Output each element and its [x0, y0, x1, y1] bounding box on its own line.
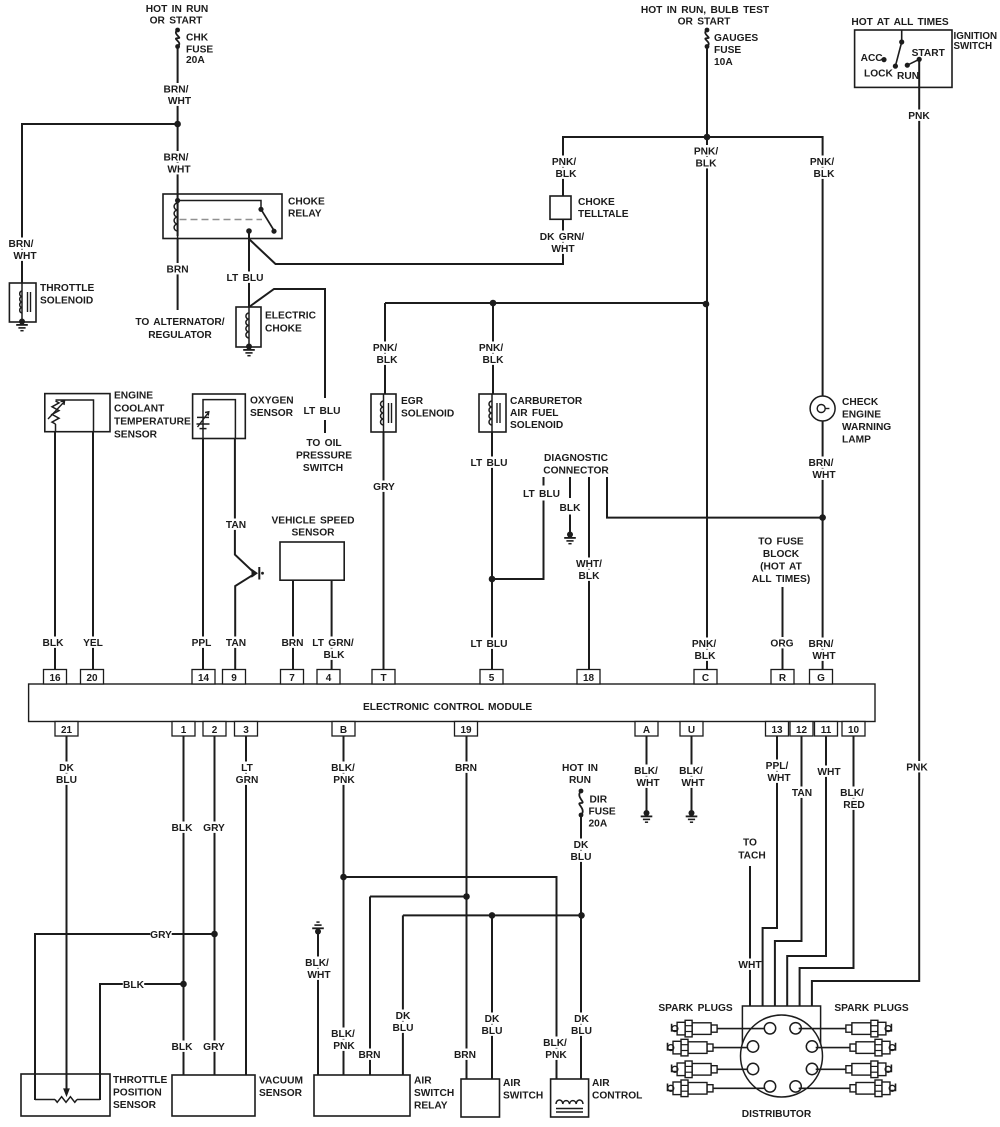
svg-text:POSITION: POSITION — [113, 1088, 162, 1099]
spark plug wire left 1 — [717, 1028, 764, 1030]
svg-text:BRN/: BRN/ — [9, 239, 34, 250]
svg-text:HOT IN RUN, BULB TEST: HOT IN RUN, BULB TEST — [641, 5, 770, 16]
svg-text:PNK: PNK — [333, 1041, 355, 1052]
svg-text:BLK: BLK — [324, 650, 346, 661]
svg-text:WHT: WHT — [168, 96, 192, 107]
ECM pin 2 — [203, 722, 226, 737]
choke telltale — [550, 196, 629, 220]
svg-text:PNK/: PNK/ — [479, 343, 504, 354]
svg-text:BLK: BLK — [483, 355, 505, 366]
svg-text:GRY: GRY — [150, 930, 172, 941]
ground at ECM pin A — [641, 810, 653, 822]
wire DK BLU dir fuse to air control valve — [570, 815, 592, 1079]
svg-text:SWITCH: SWITCH — [303, 463, 343, 474]
check engine warning lamp — [810, 396, 891, 446]
ECM pin 10 — [842, 722, 865, 737]
spark plug wire left 2 — [713, 1047, 747, 1049]
spark plug wire left 4 — [713, 1087, 764, 1089]
spark plug left 4 — [668, 1080, 714, 1097]
air switch — [461, 1078, 543, 1117]
svg-text:WHT: WHT — [13, 251, 37, 262]
svg-text:LT: LT — [241, 763, 253, 774]
svg-text:20A: 20A — [186, 55, 205, 66]
svg-text:PNK/: PNK/ — [810, 157, 835, 168]
svg-text:PNK: PNK — [333, 775, 355, 786]
svg-text:BLU: BLU — [571, 1026, 592, 1037]
svg-text:YEL: YEL — [83, 638, 103, 649]
ECM pin G — [810, 670, 833, 685]
svg-text:TAN: TAN — [792, 788, 812, 799]
svg-text:WHT: WHT — [681, 778, 705, 789]
ECM pin 11 — [815, 722, 838, 737]
svg-text:LT BLU: LT BLU — [227, 273, 264, 284]
svg-text:BRN/: BRN/ — [164, 85, 189, 96]
electric choke — [236, 307, 317, 347]
svg-text:R: R — [779, 673, 787, 684]
ECM pin 3 — [235, 722, 258, 737]
svg-text:ENGINE: ENGINE — [114, 391, 153, 402]
ground at diagnostic connector — [564, 532, 576, 544]
junction node GRY at throttle position sensor branch — [211, 931, 218, 938]
svg-text:OR START: OR START — [150, 16, 204, 27]
svg-text:ENGINE: ENGINE — [842, 410, 881, 421]
svg-text:WHT: WHT — [636, 778, 660, 789]
wire BRN/WHT branch left to throttle solenoid — [7, 124, 177, 283]
svg-text:LT GRN/: LT GRN/ — [312, 638, 354, 649]
svg-text:OXYGEN: OXYGEN — [250, 396, 294, 407]
wire PNK/BLK rail to EGR and carburetor solenoids — [371, 303, 706, 394]
EGR solenoid — [371, 394, 454, 432]
svg-text:LT BLU: LT BLU — [471, 639, 508, 650]
wire BRN/WHT lamp to ECM pin G — [807, 421, 836, 670]
svg-text:T: T — [380, 673, 386, 684]
spark plug wire right 2 — [816, 1047, 850, 1049]
engine coolant temperature sensor — [45, 391, 191, 441]
ECM pin C — [694, 670, 717, 685]
svg-text:9: 9 — [231, 673, 237, 684]
svg-text:TO: TO — [743, 838, 757, 849]
ECM pin 20 — [81, 670, 104, 685]
svg-text:PNK/: PNK/ — [692, 639, 717, 650]
svg-text:(HOT AT: (HOT AT — [760, 562, 802, 573]
svg-text:LAMP: LAMP — [842, 435, 871, 446]
svg-text:DK: DK — [396, 1011, 411, 1022]
svg-text:BRN/: BRN/ — [164, 153, 189, 164]
wire BRN/WHT into choke relay (label) — [162, 151, 191, 176]
ECM pin 5 — [480, 670, 503, 685]
svg-text:TO OIL: TO OIL — [306, 438, 341, 449]
svg-text:HOT IN: HOT IN — [562, 763, 598, 774]
junction node DK BLU at dir fuse wire — [578, 912, 585, 919]
svg-text:LT BLU: LT BLU — [523, 489, 560, 500]
wire LT BLU choke relay to electric choke — [225, 231, 265, 307]
wire WHT/BLK diagnostic connector to ECM pin 18 — [575, 477, 603, 670]
svg-text:ORG: ORG — [770, 639, 793, 650]
svg-text:WHT: WHT — [767, 773, 791, 784]
svg-text:SWITCH: SWITCH — [503, 1091, 543, 1102]
wire PNK ignition switch to distributor — [812, 59, 930, 1006]
wire BLK/PNK ECM pin B to air switch relay — [329, 736, 357, 1075]
svg-text:WHT: WHT — [167, 165, 191, 176]
wire PNK/BLK branch to check engine warning lamp — [707, 137, 836, 396]
svg-text:SENSOR: SENSOR — [114, 430, 158, 441]
ECM pin 12 — [790, 722, 813, 737]
svg-text:13: 13 — [771, 725, 783, 736]
svg-text:DISTRIBUTOR: DISTRIBUTOR — [742, 1109, 812, 1120]
junction node LT BLU with diagnostic connector — [489, 576, 496, 583]
svg-text:20A: 20A — [589, 819, 608, 830]
fuse CHK FUSE 20A — [175, 28, 213, 66]
svg-text:BRN: BRN — [167, 265, 189, 276]
svg-text:WHT: WHT — [307, 970, 331, 981]
svg-text:BLU: BLU — [56, 775, 77, 786]
svg-text:PNK: PNK — [908, 111, 930, 122]
svg-text:BLK/: BLK/ — [679, 766, 703, 777]
svg-text:11: 11 — [821, 725, 832, 736]
svg-text:COOLANT: COOLANT — [114, 404, 165, 415]
throttle solenoid — [9, 283, 94, 322]
svg-text:BRN: BRN — [358, 1050, 380, 1061]
svg-text:PRESSURE: PRESSURE — [296, 451, 352, 462]
wire PPL oxygen sensor to ECM pin 14 — [191, 439, 212, 670]
wire ORG fuse block to ECM pin R — [770, 587, 793, 670]
svg-text:BLK: BLK — [814, 169, 836, 180]
svg-text:SWITCH: SWITCH — [954, 41, 993, 52]
spark plug wire right 1 — [799, 1028, 846, 1030]
svg-text:BLK/: BLK/ — [305, 958, 329, 969]
spark plug right 2 — [850, 1039, 896, 1056]
ECM pin 16 — [44, 670, 67, 685]
svg-text:18: 18 — [583, 673, 595, 684]
svg-text:GRY: GRY — [203, 1042, 225, 1053]
net label HOT IN RUN (dir fuse) — [560, 762, 600, 787]
wire BLK/WHT ground to air switch relay — [303, 932, 331, 1076]
svg-text:DIR: DIR — [590, 795, 608, 806]
junction node PNK/BLK rail at ECM pin C wire — [703, 301, 710, 308]
svg-text:RED: RED — [843, 800, 865, 811]
svg-text:BLK: BLK — [172, 823, 194, 834]
svg-text:VACUUM: VACUUM — [259, 1076, 303, 1087]
wire BLK/WHT ECM pin U to ground — [677, 736, 705, 812]
fuse DIR FUSE 20A — [579, 789, 616, 830]
air switch relay — [314, 1075, 454, 1116]
svg-text:BLU: BLU — [393, 1023, 414, 1034]
svg-text:BLK: BLK — [377, 355, 399, 366]
svg-text:BLU: BLU — [482, 1026, 503, 1037]
ECM pin 13 — [766, 722, 789, 737]
wire BRN branch to air switch relay — [358, 897, 380, 1076]
svg-text:SOLENOID: SOLENOID — [40, 296, 93, 307]
svg-text:12: 12 — [796, 725, 808, 736]
svg-text:2: 2 — [212, 725, 218, 736]
svg-text:OR START: OR START — [678, 17, 732, 28]
svg-text:WHT: WHT — [817, 767, 841, 778]
net label HOT IN RUN OR START (left feed) — [146, 4, 208, 27]
ground at electric choke — [243, 344, 255, 356]
svg-text:BLK: BLK — [556, 169, 578, 180]
label SPARK PLUGS right — [834, 1003, 909, 1014]
svg-text:19: 19 — [460, 725, 472, 736]
svg-text:PNK/: PNK/ — [552, 157, 577, 168]
svg-text:16: 16 — [49, 673, 61, 684]
ECM pin 9 — [223, 670, 246, 685]
svg-text:BLOCK: BLOCK — [763, 549, 800, 560]
svg-text:CHK: CHK — [186, 33, 209, 44]
choke relay — [163, 194, 325, 239]
svg-text:21: 21 — [61, 725, 73, 736]
svg-text:FUSE: FUSE — [589, 807, 616, 818]
svg-text:CHOKE: CHOKE — [288, 197, 325, 208]
ECM pin 7 — [281, 670, 304, 685]
ground above air switch relay — [312, 922, 324, 934]
svg-text:BLK: BLK — [695, 651, 717, 662]
svg-text:WHT: WHT — [738, 960, 762, 971]
spark plug left 2 — [668, 1039, 714, 1056]
svg-text:BLK: BLK — [579, 571, 601, 582]
svg-text:GRY: GRY — [373, 482, 395, 493]
wire WHT distributor to tachometer — [738, 838, 766, 1007]
spark plug wire right 3 — [816, 1068, 846, 1070]
ECM pin 14 — [192, 670, 215, 685]
spark plug right 3 — [846, 1061, 892, 1078]
wire PNK/BLK from gauges fuse to ECM pin C — [690, 49, 720, 670]
svg-text:RELAY: RELAY — [288, 209, 322, 220]
wire WHT ECM pin 11 to distributor — [787, 736, 841, 1006]
wire PPL/WHT ECM pin 13 to distributor — [763, 736, 792, 1006]
wire BLK/WHT ECM pin A to ground — [632, 736, 660, 812]
svg-text:RUN: RUN — [897, 71, 919, 82]
ECM pin 18 — [577, 670, 600, 685]
svg-text:SENSOR: SENSOR — [291, 528, 335, 539]
svg-text:WHT: WHT — [812, 470, 836, 481]
svg-text:BLK: BLK — [172, 1042, 194, 1053]
wire BLK/RED ECM pin 10 to distributor — [800, 736, 866, 1006]
svg-text:CONNECTOR: CONNECTOR — [543, 466, 609, 477]
svg-text:LT BLU: LT BLU — [304, 406, 341, 417]
svg-text:AIR FUEL: AIR FUEL — [510, 408, 558, 419]
wire TAN ECM pin 12 to distributor — [775, 736, 813, 1006]
net label HOT IN RUN, BULB TEST OR START — [641, 5, 770, 28]
svg-text:CHECK: CHECK — [842, 397, 879, 408]
junction node BLK at throttle position sensor branch — [180, 981, 187, 988]
svg-text:CONTROL: CONTROL — [592, 1091, 642, 1102]
svg-text:BLK/: BLK/ — [331, 763, 355, 774]
svg-text:SENSOR: SENSOR — [113, 1100, 157, 1111]
svg-text:FUSE: FUSE — [186, 45, 213, 56]
svg-text:PNK: PNK — [545, 1050, 567, 1061]
svg-text:AIR: AIR — [503, 1078, 521, 1089]
ground at throttle solenoid — [16, 319, 28, 331]
svg-text:BLK/: BLK/ — [840, 788, 864, 799]
svg-text:A: A — [643, 725, 650, 736]
svg-text:AIR: AIR — [592, 1078, 610, 1089]
svg-text:RUN: RUN — [569, 775, 591, 786]
svg-text:FUSE: FUSE — [714, 45, 741, 56]
svg-text:WHT: WHT — [812, 651, 836, 662]
svg-text:BLU: BLU — [571, 852, 592, 863]
svg-text:ALL TIMES): ALL TIMES) — [752, 574, 810, 585]
wire LT BLU diagnostic connector to carb solenoid wire — [492, 477, 561, 579]
diagnostic connector — [543, 453, 609, 477]
svg-text:ACC.: ACC. — [861, 53, 886, 64]
wire BRN pin 19 branch line — [370, 896, 467, 898]
wire BLK diagnostic connector to ground — [559, 477, 581, 534]
svg-text:WHT: WHT — [551, 244, 575, 255]
wire BRN from choke relay to alternator/regulator — [135, 239, 224, 342]
wire GRY branch to throttle position sensor — [35, 929, 215, 1101]
wire LT GRN ECM pin 3 to vacuum sensor — [236, 736, 259, 1075]
wire YEL coolant sensor to ECM pin 20 — [82, 432, 103, 670]
svg-text:4: 4 — [326, 673, 332, 684]
junction node DK BLU at air switch drop — [489, 912, 496, 919]
svg-text:C: C — [702, 673, 709, 684]
junction node PNK/BLK splice at gauges fuse — [704, 134, 711, 141]
svg-text:DK: DK — [574, 1014, 589, 1025]
svg-text:WARNING: WARNING — [842, 422, 891, 433]
ECM pin 21 — [55, 722, 78, 737]
vacuum sensor — [172, 1075, 303, 1116]
svg-text:START: START — [912, 48, 946, 59]
svg-text:THROTTLE: THROTTLE — [113, 1075, 168, 1086]
svg-text:B: B — [340, 725, 347, 736]
svg-text:WHT/: WHT/ — [576, 559, 602, 570]
wire PNK/BLK branch to choke telltale — [550, 137, 707, 196]
wire DK BLU branch to air switch relay — [392, 915, 413, 1075]
electronic control module U1 — [29, 684, 875, 722]
ground at ECM pin U — [686, 810, 698, 822]
svg-text:TAN: TAN — [226, 638, 246, 649]
fuse GAUGES FUSE 10A — [705, 28, 759, 68]
svg-text:RELAY: RELAY — [414, 1101, 448, 1112]
svg-text:BLK: BLK — [43, 638, 65, 649]
wire BLK coolant sensor to ECM pin 16 — [42, 432, 64, 670]
junction node PNK/BLK at carburetor solenoid drop — [490, 300, 497, 307]
net label HOT AT ALL TIMES — [851, 17, 949, 28]
svg-text:TACH: TACH — [738, 851, 766, 862]
svg-text:DK: DK — [574, 840, 589, 851]
wire DK BLU branch line to dir fuse feed — [403, 914, 582, 916]
net label TO FUSE BLOCK (HOT AT ALL TIMES) — [752, 537, 810, 586]
junction node BRN/WHT with diagnostic connector branch — [819, 514, 826, 521]
carburetor air fuel solenoid — [479, 394, 583, 432]
svg-text:1: 1 — [181, 725, 187, 736]
svg-text:SPARK PLUGS: SPARK PLUGS — [658, 1003, 733, 1014]
ECM pin 1 — [172, 722, 195, 737]
ECM pin 19 — [455, 722, 478, 737]
svg-text:3: 3 — [243, 725, 249, 736]
svg-text:AIR: AIR — [414, 1076, 432, 1087]
inline connector on TAN wire — [252, 567, 264, 580]
svg-text:CHOKE: CHOKE — [578, 197, 615, 208]
svg-text:PNK/: PNK/ — [694, 147, 719, 158]
svg-text:BLK/: BLK/ — [331, 1029, 355, 1040]
ECM pin R — [771, 670, 794, 685]
svg-text:TO ALTERNATOR/: TO ALTERNATOR/ — [135, 317, 224, 328]
wire BLK/PNK branch to air control valve — [344, 877, 569, 1079]
svg-text:BLK: BLK — [123, 980, 145, 991]
wire BRN vehicle speed sensor to ECM pin 7 — [281, 580, 303, 669]
wire LT BLU to oil pressure switch — [249, 289, 352, 474]
ECM pin U — [680, 722, 703, 737]
spark plug left 3 — [672, 1061, 718, 1078]
wire GRY from EGR solenoid to ECM pin T — [373, 432, 395, 670]
wire BLK branch to throttle position sensor — [100, 979, 184, 1101]
svg-text:TEMPERATURE: TEMPERATURE — [114, 417, 191, 428]
svg-text:PPL/: PPL/ — [766, 761, 789, 772]
svg-text:PNK: PNK — [906, 763, 928, 774]
svg-text:SWITCH: SWITCH — [414, 1088, 454, 1099]
svg-text:VEHICLE SPEED: VEHICLE SPEED — [271, 516, 354, 527]
ECM pin A — [635, 722, 658, 737]
svg-text:GAUGES: GAUGES — [714, 33, 758, 44]
svg-text:ELECTRONIC CONTROL MODULE: ELECTRONIC CONTROL MODULE — [363, 702, 532, 713]
svg-text:EGR: EGR — [401, 396, 424, 407]
distributor — [741, 1006, 823, 1120]
svg-text:U: U — [688, 725, 695, 736]
svg-text:TAN: TAN — [226, 520, 246, 531]
spark plug wire right 4 — [799, 1087, 850, 1089]
ECM pin T — [372, 670, 395, 685]
wire BLK ECM pin 1 to vacuum sensor — [171, 736, 193, 1075]
svg-text:GRN: GRN — [236, 775, 259, 786]
svg-text:14: 14 — [198, 673, 210, 684]
wire TAN oxygen sensor to ECM pin 9 with inline connector — [225, 439, 252, 670]
ignition switch — [855, 30, 997, 87]
wire GRY ECM pin 2 to vacuum sensor — [203, 736, 225, 1075]
wire LT GRN/BLK vehicle speed sensor to ECM pin 4 — [310, 580, 356, 669]
wire DK BLU ECM pin 21 to throttle position sensor wiper — [56, 736, 77, 1096]
oxygen sensor — [193, 394, 294, 439]
svg-text:BLK/: BLK/ — [634, 766, 658, 777]
svg-text:TO FUSE: TO FUSE — [758, 537, 804, 548]
wire diagnostic connector to BRN/WHT lamp wire — [607, 477, 823, 518]
svg-text:DIAGNOSTIC: DIAGNOSTIC — [544, 453, 609, 464]
spark plug left 1 — [672, 1020, 718, 1037]
svg-text:PNK/: PNK/ — [373, 343, 398, 354]
svg-text:BLK: BLK — [560, 503, 582, 514]
svg-text:LT BLU: LT BLU — [471, 458, 508, 469]
svg-text:BRN/: BRN/ — [809, 458, 834, 469]
svg-text:PPL: PPL — [192, 638, 212, 649]
svg-text:LOCK: LOCK — [864, 68, 894, 79]
spark plug right 1 — [846, 1020, 892, 1037]
svg-text:G: G — [817, 673, 825, 684]
svg-text:SENSOR: SENSOR — [259, 1088, 303, 1099]
spark plug right 4 — [850, 1080, 896, 1097]
svg-text:BRN: BRN — [455, 763, 477, 774]
wire BRN/WHT from CHK fuse down to junction — [162, 49, 192, 237]
wire BRN ECM pin 19 to air switch — [454, 736, 477, 1079]
wire DK BLU branch to air switch — [481, 915, 502, 1079]
svg-text:CARBURETOR: CARBURETOR — [510, 396, 583, 407]
svg-text:THROTTLE: THROTTLE — [40, 283, 95, 294]
junction node BLK/PNK at air control branch — [340, 874, 347, 881]
svg-text:ELECTRIC: ELECTRIC — [265, 311, 317, 322]
svg-text:DK: DK — [59, 763, 74, 774]
svg-text:BLK/: BLK/ — [543, 1038, 567, 1049]
air control valve — [551, 1078, 643, 1117]
wire DK GRN/WHT choke relay to choke telltale — [249, 219, 585, 264]
junction node BRN/WHT splice — [174, 121, 181, 128]
ECM pin 4 — [317, 670, 340, 685]
spark plug wire left 3 — [717, 1068, 747, 1070]
svg-text:5: 5 — [489, 673, 495, 684]
svg-text:GRY: GRY — [203, 823, 225, 834]
svg-text:REGULATOR: REGULATOR — [148, 330, 212, 341]
svg-text:BRN: BRN — [454, 1050, 476, 1061]
vehicle speed sensor — [271, 516, 354, 581]
svg-text:SOLENOID: SOLENOID — [510, 420, 563, 431]
